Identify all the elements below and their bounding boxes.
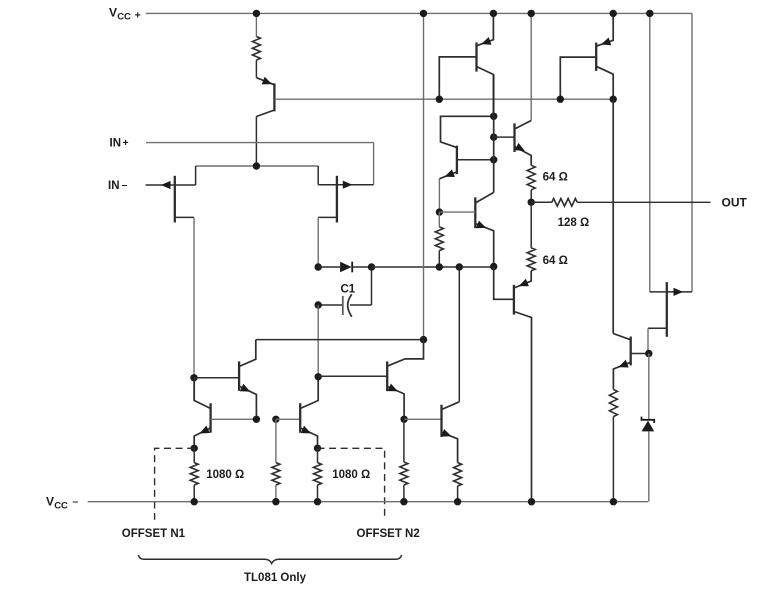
wire tail bus <box>196 165 319 167</box>
junction J2 drain / Q11 collector / Q12 base <box>315 373 322 380</box>
wire R6 to rail <box>275 485 277 502</box>
svg-text:CC: CC <box>54 501 68 512</box>
resistor R439 (base bleed) <box>435 227 443 251</box>
svg-text:1080 Ω: 1080 Ω <box>332 469 370 481</box>
junction VCC- rail node <box>314 498 321 505</box>
svg-text:+: + <box>123 137 129 149</box>
junction D1 cathode node <box>368 263 375 270</box>
diode D1 <box>318 262 371 273</box>
junction base bus Q3 base <box>557 96 564 103</box>
wire OUT node to R128 <box>531 201 552 203</box>
svg-text:+: + <box>135 9 141 21</box>
diode Z1 (zener) <box>642 417 655 432</box>
junction Q5 emitter node <box>490 263 497 270</box>
svg-text:OFFSET N1: OFFSET N1 <box>122 528 186 540</box>
wire VCC- rail <box>88 501 648 503</box>
wire J1 drain down <box>193 217 195 400</box>
wire x275 column <box>275 419 277 462</box>
junction J1 drain / Q9 base <box>190 374 197 381</box>
wire Q4 base to R439 <box>438 212 440 227</box>
wire x648 down to zener <box>648 354 650 420</box>
svg-text:OFFSET N2: OFFSET N2 <box>357 528 420 540</box>
wire right gray vertical x=650 <box>649 13 651 292</box>
resistor R4 (emitter) <box>609 390 617 417</box>
junction y339/x423 node <box>420 336 427 343</box>
svg-text:IN: IN <box>110 138 122 150</box>
wire R8 to rail <box>403 485 405 502</box>
resistor R1 <box>252 37 260 61</box>
svg-text:1080 Ω: 1080 Ω <box>206 469 244 481</box>
junction VCC- rail node <box>272 498 279 505</box>
resistor R3 64ohm <box>527 248 535 271</box>
junction VCC+ rail node <box>528 10 535 17</box>
wire y339 line <box>256 339 424 341</box>
wire Q4 emitter down <box>438 179 440 212</box>
transistor Q9 (NPN diode-connected) <box>194 340 256 420</box>
wire R4 to VCC- rail <box>612 417 614 502</box>
wire Q12 base line <box>318 375 387 377</box>
capacitor C1 <box>318 267 371 317</box>
transistor J1 (p-JFET input, IN-) <box>146 166 196 223</box>
svg-text:TL081 Only: TL081 Only <box>244 572 307 584</box>
net label IN+ <box>110 137 129 149</box>
junction VCC- rail node <box>191 498 198 505</box>
svg-text:V: V <box>109 5 117 19</box>
resistor R2 64ohm <box>527 165 535 190</box>
svg-text:128 Ω: 128 Ω <box>558 217 590 229</box>
wire VCC+ to Q6 collector <box>530 13 532 120</box>
wire Q13 base line <box>404 418 441 420</box>
resistor R6 <box>272 463 280 485</box>
dashed offset N1 stub <box>155 448 195 519</box>
wire base bus y=99 <box>274 98 613 100</box>
wire J2 drain continues down <box>317 305 319 376</box>
junction VCC+ rail node <box>646 10 653 17</box>
svg-text:64 Ω: 64 Ω <box>543 255 568 267</box>
wire right drop from VCC+ corner <box>691 13 693 292</box>
wire IN+ horizontal <box>146 142 374 144</box>
junction OUT divider node <box>528 199 535 206</box>
transistor Q4 (NPN diode-connected) <box>439 116 493 179</box>
junction x494 lower <box>490 156 497 163</box>
wire compensation node line y=267 <box>372 266 494 268</box>
junction VCC- rail node <box>454 498 461 505</box>
junction base bus Q2 base <box>436 96 443 103</box>
transistor Q6 (NPN) <box>494 121 532 166</box>
wire OUT line <box>577 201 710 203</box>
junction Q8 base node <box>645 350 652 357</box>
junction VCC- rail node <box>528 498 535 505</box>
net label VCC+ <box>109 5 141 22</box>
wire x613 vertical <box>612 99 614 333</box>
svg-text:C1: C1 <box>341 284 356 296</box>
resistor R9 <box>454 463 462 486</box>
wire long vertical x=423 <box>423 13 425 339</box>
junction C1 left node <box>315 301 322 308</box>
wire R7 wires <box>317 448 319 462</box>
net label VCC- <box>46 494 78 511</box>
wire x494 vertical upper <box>493 75 495 193</box>
wire mirror bus to Q11 <box>276 418 300 420</box>
wire zener to rail corner <box>648 431 650 501</box>
transistor Q8 (NPN output) <box>613 334 649 390</box>
junction VCC+ rail node <box>253 10 260 17</box>
junction VCC- rail node <box>610 498 617 505</box>
junction VCC+ rail node <box>490 10 497 17</box>
wire R1 to Q1 emitter <box>255 60 257 78</box>
transistor Q2 (PNP) <box>439 13 493 116</box>
wire R439 to y267 <box>438 251 440 267</box>
wire J2 drain down <box>317 217 319 267</box>
junction x494 base Q6 <box>490 133 497 140</box>
junction Q4/Q5 base node <box>436 208 443 215</box>
transistor J2 (p-JFET input, IN+) <box>318 166 373 223</box>
junction Q9 emitter node <box>253 416 260 423</box>
junction base bus right end <box>610 96 617 103</box>
svg-text:V: V <box>46 494 54 508</box>
transistor Q11 (NPN mirror right) <box>300 377 318 449</box>
transistor Q12 (NPN) <box>387 340 423 420</box>
transistor Q1 (PNP) <box>256 77 274 117</box>
wire R5 to rail <box>193 448 195 462</box>
transistor J3 (JFET, output bias) <box>648 282 692 353</box>
wire R9 to rail <box>457 486 459 502</box>
transistor Q7 (PNP) <box>494 267 532 502</box>
junction tail node <box>253 162 260 169</box>
net label IN- <box>108 179 128 192</box>
junction J2 drain / D1 anode <box>315 263 322 270</box>
resistor R8 <box>400 462 408 485</box>
junction VCC+ rail node <box>610 10 617 17</box>
transistor Q3 (PNP) <box>560 13 613 99</box>
svg-text:IN: IN <box>108 180 120 192</box>
wire R2 to OUT node <box>530 190 532 203</box>
junction VCC- rail node <box>400 498 407 505</box>
svg-text:–: – <box>72 496 78 508</box>
junction Q11 emitter node <box>314 445 321 452</box>
brace TL081 only <box>138 555 401 564</box>
resistor R5 1080ohm <box>190 463 198 485</box>
resistor R7 1080ohm <box>314 463 322 485</box>
svg-text:CC: CC <box>117 12 131 23</box>
wire x459 vertical <box>458 267 460 402</box>
wire IN+ drop to J2 gate <box>373 143 375 185</box>
transistor Q5 (NPN) <box>439 192 493 266</box>
resistor R128 128ohm <box>552 199 577 207</box>
wire VCC+ rail <box>146 12 692 14</box>
wire OUT node down to R3 <box>530 202 532 248</box>
svg-text:64 Ω: 64 Ω <box>543 171 568 183</box>
junction Q12 emitter node <box>400 416 407 423</box>
junction node x459 on y267 <box>456 263 463 270</box>
junction mirror bus node <box>272 416 279 423</box>
transistor Q10 (NPN mirror left) <box>194 378 256 449</box>
junction Q10 emitter node <box>191 445 198 452</box>
junction VCC+ rail node <box>420 10 427 17</box>
junction x494 upper <box>490 113 497 120</box>
svg-text:–: – <box>122 179 128 191</box>
svg-text:OUT: OUT <box>722 196 748 210</box>
transistor Q13 (NPN) <box>441 402 459 463</box>
wire Q1 collector down to tail <box>255 117 257 167</box>
wire VCC+ to R1 <box>255 13 257 36</box>
dashed offset N2 stub <box>318 448 385 519</box>
wire x403 column <box>403 419 405 462</box>
junction R439 bottom <box>436 263 443 270</box>
